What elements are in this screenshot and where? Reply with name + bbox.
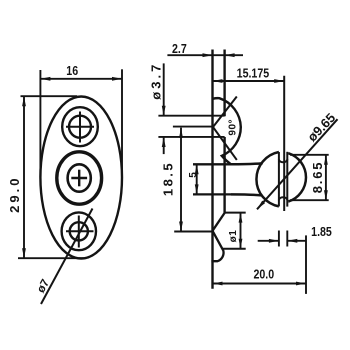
leader line o7 (front view) xyxy=(35,209,92,305)
side view: plate right face line (upper and mid segments) xyxy=(223,50,225,213)
dimension 18.5 (hole spacing) xyxy=(161,128,213,232)
knob stem edges (side view) xyxy=(193,164,231,194)
dimension o1 (bottom countersink) xyxy=(228,213,242,249)
bottom countersunk hole (front view) with crosshair xyxy=(62,212,96,250)
slot notch root arcs xyxy=(279,159,287,200)
top countersink bump profile (side view) xyxy=(213,98,241,164)
top hole bore lines (side view) xyxy=(158,116,224,137)
dimension 8.65 (cap height) xyxy=(290,155,329,200)
top countersunk hole (front view) with crosshair xyxy=(62,107,98,146)
slot center line (15.175 extension) xyxy=(283,76,285,211)
stem-to-ball flare curves xyxy=(231,163,263,195)
svg-text:ø3.7: ø3.7 xyxy=(149,62,164,100)
dimension 16 (front view width) xyxy=(40,64,122,177)
svg-text:20.0: 20.0 xyxy=(253,268,274,282)
leader o9.65 (ball diameter) xyxy=(257,110,338,209)
90 degree countersink angle label xyxy=(228,119,239,136)
svg-text:ø7: ø7 xyxy=(35,278,52,296)
svg-text:8.65: 8.65 xyxy=(310,161,325,194)
dimension 29.0 (front view height) xyxy=(7,96,86,258)
bottom countersink profile (side view) xyxy=(211,213,224,262)
dimension o3.7 (top hole bore) xyxy=(149,62,166,154)
dimension 5 (stem) xyxy=(188,164,199,194)
svg-text:1.85: 1.85 xyxy=(311,225,332,239)
ball slot walls xyxy=(279,152,287,207)
svg-text:29.0: 29.0 xyxy=(7,176,22,213)
top countersink cone diagonals (side view) xyxy=(213,97,237,160)
svg-text:ø1: ø1 xyxy=(228,230,239,243)
front view: oval plate outline xyxy=(40,97,122,259)
svg-text:5: 5 xyxy=(188,172,199,178)
ball right cap arc xyxy=(288,153,306,201)
middle knob hole (front view) with plus mark xyxy=(57,152,102,204)
ball outline (side view) xyxy=(256,152,278,206)
bottom countersink rim extension lines xyxy=(222,213,246,249)
dimension 2.7 (plate thickness) xyxy=(167,42,243,57)
svg-text:2.7: 2.7 xyxy=(172,42,187,56)
dimension 20.0 (overall length) xyxy=(213,235,307,294)
svg-text:90°: 90° xyxy=(228,119,239,136)
svg-text:18.5: 18.5 xyxy=(161,161,176,196)
svg-text:15.175: 15.175 xyxy=(237,67,270,81)
dimension 1.85 (slot width) xyxy=(258,225,333,246)
side view: plate left face line xyxy=(211,50,213,289)
svg-text:ø9.65: ø9.65 xyxy=(304,110,338,144)
svg-text:16: 16 xyxy=(66,64,78,78)
dimension 15.175 (to slot center) xyxy=(213,67,285,83)
